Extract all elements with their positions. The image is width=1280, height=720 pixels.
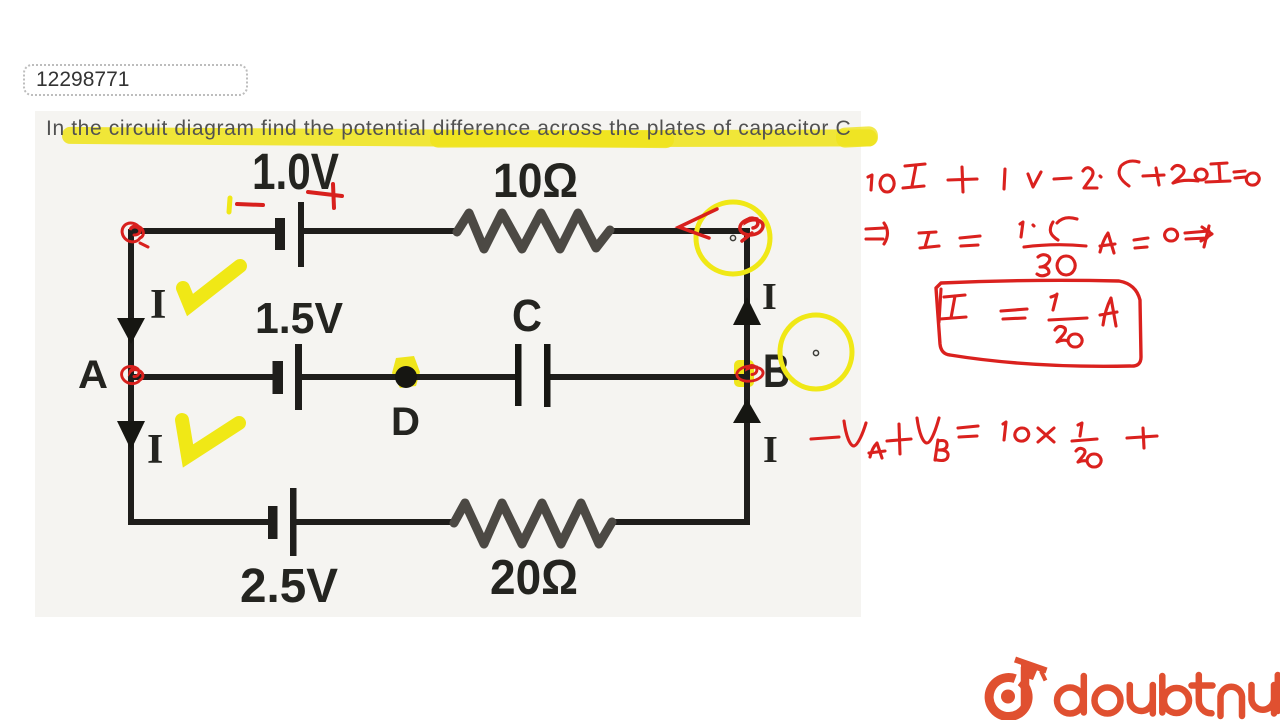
red pen annotations on circuit xyxy=(122,184,763,384)
doubtnut logo icon: d ascender xyxy=(1021,667,1030,706)
yellow check mark upper left xyxy=(183,266,240,305)
doubtnut logo icon: graduation cap board xyxy=(1015,660,1047,671)
svg-text:C: C xyxy=(512,290,542,341)
question text xyxy=(46,117,851,141)
capacitor C left plate xyxy=(515,344,522,406)
svg-text:D: D xyxy=(391,400,420,444)
letter n xyxy=(1221,687,1243,716)
letter d xyxy=(1057,688,1083,714)
svg-text:I: I xyxy=(150,282,166,328)
current arrow down on left wire (lower) xyxy=(117,421,145,450)
current arrow down on left wire (upper) xyxy=(117,318,145,344)
current arrow up on right wire (above node B) xyxy=(733,297,761,325)
small cursor dot inside yellow circle right of node B xyxy=(813,350,818,355)
red arrow pointing at node TR xyxy=(679,209,717,238)
battery B2 1.5V positive plate xyxy=(295,344,302,410)
doubtnut wordmark xyxy=(1057,675,1278,716)
yellow highlight blob on node B xyxy=(734,360,754,387)
red plus sign annotation xyxy=(308,184,342,208)
wire left vertical: node TL to node A to node BL xyxy=(128,229,134,522)
capacitor C right plate xyxy=(544,344,551,407)
wire battery B2 to node D to capacitor C xyxy=(302,374,516,380)
wire battery B1 to resistor R1 xyxy=(304,228,457,234)
wire battery B3 to resistor R2 xyxy=(295,519,457,525)
wire resistor R1 to node TR xyxy=(610,228,747,234)
letter u xyxy=(1130,685,1153,714)
red scribble circle on node B xyxy=(737,366,763,382)
yellow highlight blob on node D xyxy=(392,356,420,388)
handwritten red work: equations xyxy=(811,161,1259,467)
equation line 4: -VA + VB = 10 x 1/20 + xyxy=(811,418,1157,467)
letter b xyxy=(1159,676,1166,713)
wire node BL to battery B3 xyxy=(128,519,269,525)
resistor R2 20Ω zigzag xyxy=(454,503,612,544)
red scribble circle on node A xyxy=(122,366,143,383)
yellow tick near battery B1 minus sign xyxy=(229,198,230,212)
svg-text:10Ω: 10Ω xyxy=(493,155,578,208)
battery B1 1.0V positive plate xyxy=(298,202,304,267)
letter t (final, cut at right edge) xyxy=(1275,675,1280,711)
equation line 2: => I = 1.5/30 A = 0 (struck arrow) xyxy=(866,218,1212,276)
red minus sign annotation xyxy=(237,204,263,205)
boxed result: I = 1/20 A xyxy=(936,280,1141,366)
yellow highlighter strokes over question xyxy=(62,127,674,148)
doubtnut logo icon: graduation cap body xyxy=(1021,662,1038,680)
doubtnut logo icon: tassel xyxy=(1041,671,1046,681)
battery B1 1.0V negative plate xyxy=(275,218,285,250)
battery B3 2.5V positive plate xyxy=(290,488,297,556)
wire resistor R2 to node BR xyxy=(612,519,750,525)
battery B3 2.5V negative plate xyxy=(268,506,278,539)
svg-text:I: I xyxy=(147,427,163,473)
letter t xyxy=(1192,675,1213,713)
doubtnut logo icon: ring with top gap xyxy=(989,678,1028,717)
yellow pen annotations xyxy=(182,198,852,456)
svg-text:I: I xyxy=(763,429,778,471)
wire capacitor C to node B xyxy=(550,374,747,380)
battery B2 1.5V negative plate xyxy=(273,361,284,394)
svg-text:20Ω: 20Ω xyxy=(490,551,578,605)
svg-text:A: A xyxy=(78,353,108,397)
yellow circle around node TR xyxy=(696,202,770,274)
letter o xyxy=(1095,688,1121,714)
equation line 1: 10I + 1V - 2.5 + 20I = 0 xyxy=(868,161,1259,192)
svg-text:2.5V: 2.5V xyxy=(240,560,338,613)
current arrow up on right wire (below node B) xyxy=(733,399,761,423)
question id box xyxy=(23,64,248,96)
wire node A to battery B2 xyxy=(131,374,273,380)
yellow check mark lower left xyxy=(182,420,239,456)
node D junction dot xyxy=(395,366,417,388)
svg-text:1.5V: 1.5V xyxy=(255,294,344,343)
yellow circle right of node B xyxy=(780,315,852,389)
resistor R1 10Ω zigzag xyxy=(457,213,610,249)
wire top-left: node TL to battery B1 xyxy=(131,228,276,234)
red scribble circle on node TR xyxy=(740,218,763,241)
wire right vertical: node TR to node B to node BR xyxy=(744,228,750,522)
scanned problem area background xyxy=(35,111,861,617)
red scribble circle on node TL xyxy=(122,223,148,247)
small cursor dot near node TR xyxy=(730,235,735,240)
svg-text:1.0V: 1.0V xyxy=(252,143,339,200)
letter u (second) xyxy=(1252,685,1275,714)
svg-text:I: I xyxy=(762,276,777,318)
doubtnut logo icon: center dot xyxy=(1001,690,1015,704)
